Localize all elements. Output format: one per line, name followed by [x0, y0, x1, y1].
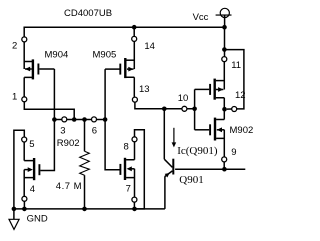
svg-text:1: 1 — [12, 92, 17, 103]
pin 2 — [22, 37, 27, 42]
wire VDD top rail — [24, 27, 224, 37]
svg-text:10: 10 — [178, 93, 189, 104]
svg-text:Vcc: Vcc — [193, 12, 209, 23]
junction bus at M905 gate — [103, 117, 108, 122]
transistor M904 (PMOS, pins 2-1) — [24, 59, 54, 96]
svg-text:7: 7 — [126, 183, 131, 194]
svg-text:4: 4 — [30, 184, 35, 195]
junction pin12 node — [222, 107, 227, 112]
pin 7 — [132, 197, 137, 202]
wire M904 gate to node3 bus to M903 gate — [40, 69, 54, 171]
transistor M905 (PMOS, pins 14-13) — [105, 42, 134, 98]
svg-text:12: 12 — [235, 90, 246, 101]
wire M905 gate down through bus to NMOS 8/7 gate — [105, 69, 119, 170]
wire pin13 to pin10 node — [135, 102, 195, 109]
svg-text:9: 9 — [231, 147, 236, 158]
pin 9 — [222, 157, 227, 162]
wire pin1 to node3 bus — [24, 102, 74, 120]
wire loop Vcc node to pin12 — [224, 50, 244, 109]
transistor lower-middle (NMOS, pins 8-7) — [120, 142, 134, 197]
svg-text:2: 2 — [12, 41, 17, 52]
wire pin7 to GND bus — [133, 202, 135, 209]
svg-text:R902: R902 — [57, 138, 80, 149]
node Vcc power symbol — [216, 8, 232, 27]
wire pin9 to base line — [223, 162, 225, 169]
svg-text:GND: GND — [27, 214, 48, 225]
svg-text:4.7 M: 4.7 M — [56, 181, 82, 192]
wire shared gate line right column — [194, 89, 196, 129]
junction rail / Vcc drop — [222, 25, 227, 30]
junction pin11 / loop — [222, 47, 227, 52]
pin 8 — [132, 137, 137, 142]
junction R902 bottom — [82, 207, 87, 212]
pin 10 — [182, 106, 187, 111]
svg-text:M902: M902 — [230, 125, 254, 136]
junction gate line — [192, 107, 197, 112]
svg-text:14: 14 — [144, 41, 155, 52]
pin 13 — [132, 97, 137, 102]
svg-text:Q901: Q901 — [179, 174, 203, 186]
junction rail / pin14 — [132, 25, 137, 30]
pin 12 — [232, 107, 237, 112]
wire pin5 to GND rail — [14, 130, 24, 209]
svg-text:5: 5 — [29, 139, 34, 150]
svg-text:6: 6 — [92, 125, 97, 136]
svg-text:Ic(Q901): Ic(Q901) — [177, 145, 218, 157]
junction Q901 collector — [162, 107, 167, 112]
svg-text:11: 11 — [231, 60, 241, 71]
junction bus at R902 — [82, 117, 87, 122]
transistor Q901 (PNP BJT) — [164, 109, 173, 209]
transistor M902 (NMOS, pin 12 top, pin 9 bottom) — [195, 109, 225, 157]
junction bus at pin1 wire — [72, 117, 77, 122]
pin 5 — [22, 137, 27, 142]
pin 1 — [22, 97, 27, 102]
wire Q901 base line — [175, 168, 245, 170]
resistor R902 — [80, 120, 90, 209]
junction GND — [12, 207, 17, 212]
junction pin4 — [22, 207, 27, 212]
svg-text:M905: M905 — [93, 50, 117, 61]
pin 6 — [92, 117, 97, 122]
junction base line — [222, 167, 227, 172]
pin 11 — [222, 57, 227, 62]
wire node 3/6 bus — [54, 119, 105, 121]
wire pin4 to GND rail — [23, 201, 25, 209]
junction pin7 — [132, 207, 137, 212]
wire pin8 loop to GND bus — [135, 130, 145, 209]
wire bottom GND bus — [14, 208, 165, 210]
wire pin12 to junction — [227, 108, 232, 110]
svg-text:13: 13 — [139, 84, 150, 95]
svg-text:CD4007UB: CD4007UB — [64, 8, 112, 19]
wire rail to pin14 — [133, 27, 135, 36]
wire Vcc drop to pin11 — [224, 27, 226, 57]
transistor upper-right (PMOS, pins 11-12) — [195, 62, 225, 109]
svg-text:8: 8 — [124, 142, 129, 153]
pin 14 — [132, 36, 137, 41]
current arrow Ic — [172, 128, 177, 148]
pin 3 — [62, 117, 67, 122]
svg-text:M904: M904 — [45, 50, 69, 61]
ground — [9, 209, 19, 230]
svg-text:3: 3 — [60, 125, 65, 136]
wire pin2 to M904 drain/bulk — [23, 42, 25, 69]
junction bus at M904 gate — [52, 117, 57, 122]
transistor M903 (NMOS, pins 5-4) — [24, 142, 39, 196]
pin 4 — [22, 196, 27, 201]
